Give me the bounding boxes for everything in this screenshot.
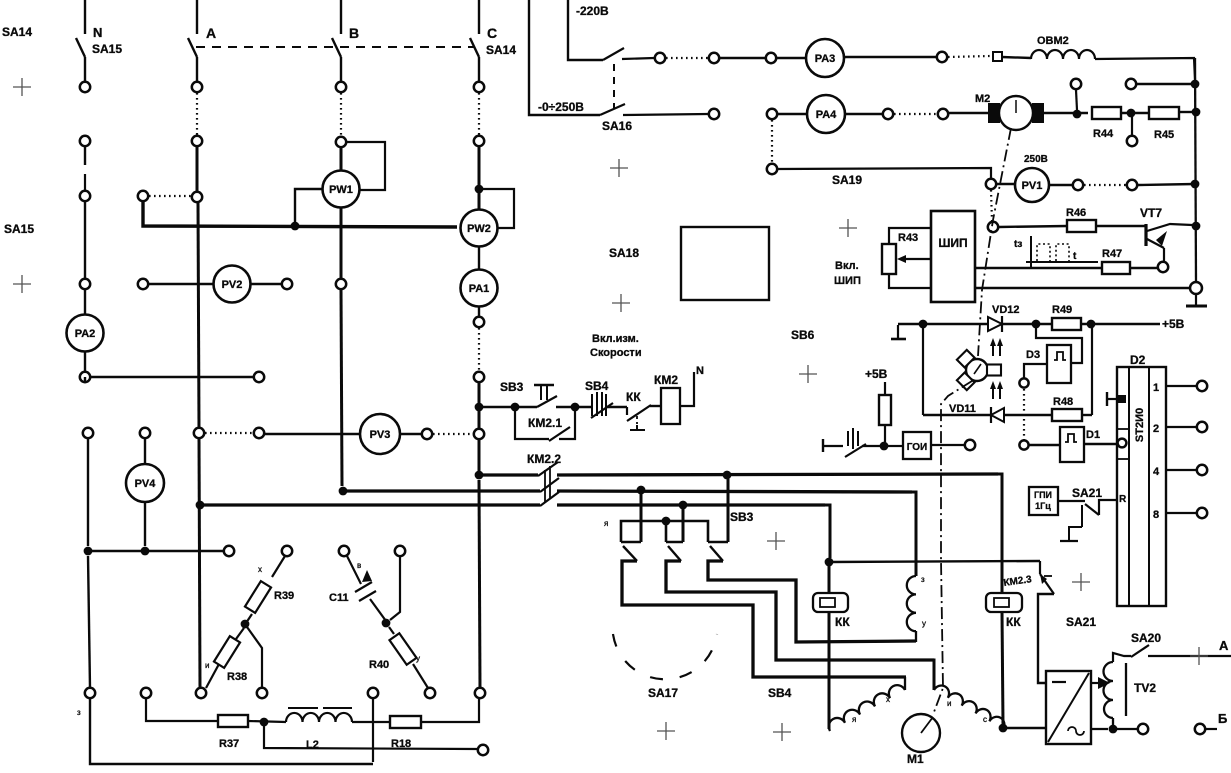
coil to N xyxy=(680,372,694,406)
wire A column (down to PV3 row) xyxy=(198,202,199,428)
node bar xyxy=(662,517,671,526)
terminal xyxy=(655,53,665,63)
wire N column xyxy=(84,201,86,279)
thermal element KK left xyxy=(828,566,831,593)
svg-text:SA21: SA21 xyxy=(1066,615,1096,629)
svg-text:+5В: +5В xyxy=(1162,317,1185,331)
tick pole2 xyxy=(666,541,683,544)
registration mark xyxy=(610,159,628,177)
svg-text:SA15: SA15 xyxy=(92,42,122,56)
svg-text:ОВМ2: ОВМ2 xyxy=(1037,35,1069,47)
terminal above PV4 xyxy=(140,428,150,438)
svg-text:R48: R48 xyxy=(1053,396,1073,408)
voltmeter PV3 xyxy=(264,433,360,435)
svg-text:SA19: SA19 xyxy=(832,173,862,187)
blade pole2 xyxy=(668,546,681,561)
PW1 voltage loop xyxy=(347,142,385,190)
wire SA19 row xyxy=(777,168,991,178)
light arrows upper xyxy=(993,344,1000,356)
svg-text:SA21: SA21 xyxy=(1072,486,1102,500)
registration mark xyxy=(839,219,857,237)
wire PA2 test row xyxy=(84,377,86,382)
terminal xyxy=(709,109,719,119)
ammeter PA1 xyxy=(478,246,480,270)
terminal xyxy=(766,53,776,63)
wire VD12 to R49 xyxy=(1002,323,1052,325)
phase switch SA14 pole B xyxy=(332,0,341,81)
motor M2 xyxy=(989,104,999,122)
PW2 voltage loop xyxy=(483,189,514,228)
resistor R47 xyxy=(1102,262,1130,274)
svg-text:з: з xyxy=(921,575,925,584)
terminal on N column xyxy=(80,279,90,289)
winding W3 (left, diagonal) xyxy=(826,682,905,731)
registration mark xyxy=(13,275,31,293)
wire to rail xyxy=(1138,184,1195,185)
arrow to TV2 tap xyxy=(1091,682,1103,684)
svg-text:з: з xyxy=(77,708,81,717)
svg-text:-0÷250В: -0÷250В xyxy=(538,100,584,114)
terminal below PA1 xyxy=(478,306,480,317)
terminal xyxy=(709,53,719,63)
comparator D3 xyxy=(1047,345,1071,383)
registration mark xyxy=(799,365,817,383)
svg-text:1: 1 xyxy=(1153,382,1159,394)
wire +5V xyxy=(1081,323,1160,325)
wire R48 right xyxy=(1082,414,1092,416)
svg-text:х: х xyxy=(258,565,262,574)
transistor VT7 xyxy=(1144,224,1147,246)
registration mark xyxy=(612,294,630,312)
svg-text:КК: КК xyxy=(1006,615,1021,629)
node on A column / bus3 xyxy=(196,501,205,510)
R43 wiper arrow xyxy=(904,258,931,260)
node xyxy=(571,403,580,412)
terminal xyxy=(1127,180,1137,190)
terminal right of PA2 row xyxy=(254,372,264,382)
dotted link PV3 to C column xyxy=(433,433,473,435)
svg-text:ШИП: ШИП xyxy=(834,275,861,287)
wire VD11 row xyxy=(923,414,991,416)
contact KM2.3 xyxy=(1039,561,1041,574)
svg-text:R40: R40 xyxy=(369,659,389,671)
wire OBM2 to right rail xyxy=(1095,58,1195,80)
node R44/R45 xyxy=(1121,112,1149,114)
node PW1 bus xyxy=(291,222,300,231)
terminal xyxy=(1195,724,1205,734)
wire from terminal 400 down xyxy=(390,556,400,620)
selector arc SA17 (dashed) xyxy=(613,634,717,679)
terminal bottom of C column xyxy=(475,688,485,698)
resistor R18 xyxy=(390,716,421,728)
terminal xyxy=(1138,724,1148,734)
wire to D1 xyxy=(1029,444,1060,446)
terminal on B column xyxy=(336,279,346,289)
svg-text:250В: 250В xyxy=(1024,154,1048,165)
bottom bus xyxy=(90,698,373,764)
terminal xyxy=(141,688,151,698)
node below PV4 xyxy=(141,547,150,556)
wire xyxy=(720,57,766,59)
terminal on A column at PV3 row xyxy=(194,428,204,438)
SA18 box xyxy=(681,227,769,300)
wire lower tap xyxy=(264,726,477,749)
tap terminal above xyxy=(1076,90,1077,110)
svg-text:D1: D1 xyxy=(1086,429,1100,441)
svg-text:я: я xyxy=(852,715,856,724)
step path pole3 xyxy=(708,561,916,642)
svg-text:КМ2.1: КМ2.1 xyxy=(528,416,562,430)
counter D2 box xyxy=(1117,367,1166,606)
terminal bottom of A column xyxy=(196,688,206,698)
wire left column xyxy=(87,438,89,546)
bus3 corner down xyxy=(822,505,830,558)
inductor OBM2 xyxy=(1031,50,1095,59)
node xyxy=(880,442,889,451)
D2 input pin circle xyxy=(1118,439,1127,448)
svg-text:TV2: TV2 xyxy=(1134,681,1156,695)
wire SB3 row xyxy=(483,406,537,408)
svg-text:SA17: SA17 xyxy=(648,686,678,700)
svg-text:VT7: VT7 xyxy=(1140,206,1162,220)
resistor R49 xyxy=(1052,318,1081,330)
node bus1/SB3bank xyxy=(723,471,732,480)
autotransformer TV2 xyxy=(1104,662,1114,718)
svg-text:C11: C11 xyxy=(329,592,349,604)
photodiode VD11 xyxy=(990,407,992,423)
svg-text:SA20: SA20 xyxy=(1131,631,1161,645)
svg-text:1Гц: 1Гц xyxy=(1035,501,1051,511)
terminal xyxy=(282,546,292,556)
wire C column to bottom xyxy=(479,480,480,688)
terminal on A column xyxy=(192,82,202,92)
TV2 bottom to output xyxy=(1112,718,1114,726)
terminal row y551 xyxy=(224,546,234,556)
bus2 corner to winding W2 xyxy=(908,492,916,576)
resistor R37 xyxy=(218,715,248,727)
terminal left of A column xyxy=(138,191,148,201)
svg-text:я: я xyxy=(604,519,608,528)
dotted link C column xyxy=(478,93,480,135)
wire to R46 xyxy=(999,226,1067,227)
phase switch SA14 pole C xyxy=(470,0,479,81)
svg-text:х: х xyxy=(886,695,890,704)
svg-text:N: N xyxy=(93,25,102,40)
svg-text:у: у xyxy=(922,619,926,628)
svg-text:КК: КК xyxy=(835,615,850,629)
svg-text:R39: R39 xyxy=(274,590,294,602)
svg-text:R38: R38 xyxy=(227,671,247,683)
common bar xyxy=(621,521,708,542)
node B bus2 xyxy=(339,487,348,496)
svg-text:A: A xyxy=(206,25,216,41)
switch SA21 xyxy=(1058,500,1085,502)
svg-text:PV3: PV3 xyxy=(370,429,391,441)
svg-text:SB6: SB6 xyxy=(791,328,815,342)
wire VD11 to R48 xyxy=(1004,414,1052,416)
riser R48 xyxy=(1091,328,1093,415)
svg-text:PA2: PA2 xyxy=(75,328,96,340)
terminal xyxy=(339,546,349,556)
wattmeter PW1 xyxy=(340,147,343,170)
wire xyxy=(556,406,591,408)
svg-text:Б: Б xyxy=(1218,711,1227,726)
svg-text:и: и xyxy=(947,699,951,708)
bus1 corner to KK right xyxy=(996,474,1002,592)
svg-text:КК: КК xyxy=(626,390,641,404)
node xyxy=(1087,320,1096,329)
wire xyxy=(650,405,661,407)
resistor R45 xyxy=(1149,107,1179,119)
terminal xyxy=(937,52,947,62)
terminal xyxy=(1019,440,1028,449)
terminal on C column PV3 row xyxy=(474,429,484,439)
light arrows lower xyxy=(993,387,1000,399)
svg-text:PW2: PW2 xyxy=(467,223,491,235)
node xyxy=(511,403,520,412)
terminal xyxy=(1073,180,1083,190)
dotted link to A column xyxy=(149,195,191,197)
svg-text:в: в xyxy=(357,561,361,570)
node bus3 drop xyxy=(679,501,688,510)
wire C column xyxy=(478,411,481,429)
right rail xyxy=(1195,58,1196,282)
winding W right (diagonal) xyxy=(929,660,934,690)
drop from bus1 xyxy=(727,479,730,542)
node C column bus1 xyxy=(475,471,484,480)
switch SA16 upper pole (-220V) xyxy=(568,0,603,60)
terminal emitter xyxy=(1158,262,1168,272)
terminal xyxy=(478,745,488,755)
drop from bus3 xyxy=(682,509,685,542)
voltmeter PV4 xyxy=(144,438,146,464)
wire to OBM2 xyxy=(1002,57,1031,58)
wire M2 to R44 xyxy=(1043,112,1088,114)
terminal on C column xyxy=(474,136,484,146)
svg-text:SA18: SA18 xyxy=(609,246,639,260)
terminal PV3 right xyxy=(422,429,432,439)
wire to KM2.3 xyxy=(829,561,1040,562)
pushbutton SB3 xyxy=(534,384,554,386)
step path pole2 xyxy=(666,561,934,660)
wire R45 to rail xyxy=(1179,111,1195,113)
svg-text:VD11: VD11 xyxy=(949,403,976,415)
wire SHIP out to R47 xyxy=(975,267,1102,269)
registration mark xyxy=(657,722,675,740)
terminal on C column xyxy=(474,82,484,92)
ammeter PA3 xyxy=(776,57,806,59)
wire D1 to D2 xyxy=(1084,443,1117,445)
square terminal xyxy=(993,52,1002,61)
svg-text:R: R xyxy=(1119,494,1127,505)
SA16 gang link dashed xyxy=(613,64,615,108)
wire xyxy=(606,406,627,408)
terminal on A column xyxy=(192,192,202,202)
inverter block xyxy=(1046,671,1091,744)
svg-text:Вкл.изм.: Вкл.изм. xyxy=(592,333,639,345)
svg-text:SA15: SA15 xyxy=(4,222,34,236)
wire down to measurement bus xyxy=(143,201,457,227)
wire C column xyxy=(478,439,481,471)
coupling dash-dot M2 to disc to M1 xyxy=(978,128,1011,356)
step glyph xyxy=(1081,505,1083,527)
capacitor C11 branch xyxy=(347,556,361,584)
svg-text:R49: R49 xyxy=(1052,304,1072,316)
wire R46 to VT7 base xyxy=(1096,225,1146,227)
terminal on A column xyxy=(192,136,202,146)
svg-text:R46: R46 xyxy=(1066,207,1086,219)
resistor R38 (rotated) xyxy=(236,628,244,639)
wire star point to inverter xyxy=(1007,727,1046,729)
registration mark xyxy=(1190,647,1208,665)
bus1 y475 xyxy=(483,473,538,476)
svg-text:M2: M2 xyxy=(975,93,990,105)
KM2.2 link bars xyxy=(544,470,546,502)
switch SA20 xyxy=(1113,653,1131,662)
branch to D3 xyxy=(1036,328,1082,363)
dotted link to R46 row xyxy=(991,190,992,221)
terminal bottom left column xyxy=(85,688,95,698)
svg-text:PA3: PA3 xyxy=(815,53,836,65)
svg-text:B: B xyxy=(349,25,359,41)
inductor L2 xyxy=(286,713,352,722)
wire R37 to L2 xyxy=(248,721,286,722)
svg-text:C: C xyxy=(487,25,497,41)
lead R39 to node xyxy=(246,614,252,623)
switch SA16 lower pole (-0..250V) xyxy=(529,0,600,115)
terminal on B column xyxy=(336,82,346,92)
svg-text:R47: R47 xyxy=(1102,248,1122,260)
voltmeter PV2 xyxy=(148,283,213,285)
svg-text:D3: D3 xyxy=(1026,349,1040,361)
gang link dashed A-B-C xyxy=(196,46,474,48)
terminal PV2 right xyxy=(282,279,292,289)
svg-text:Скорости: Скорости xyxy=(590,347,642,359)
wire from bus into GOI row xyxy=(879,445,884,447)
svg-text:SB4: SB4 xyxy=(768,686,792,700)
terminal xyxy=(767,164,777,174)
bus2 y491 xyxy=(342,489,540,492)
wire L2 to R18 xyxy=(352,721,390,723)
terminal above left column xyxy=(83,428,93,438)
pulse generator GPI 1Hz xyxy=(1029,487,1058,515)
svg-text:SA14: SA14 xyxy=(2,25,32,39)
PW1 left lead to bus xyxy=(295,189,322,222)
tick pole3 xyxy=(708,541,728,544)
svg-text:R45: R45 xyxy=(1154,129,1174,141)
registration mark xyxy=(13,78,31,96)
wattmeter PW2 xyxy=(478,189,481,210)
node left column xyxy=(84,547,93,556)
KM2.2 blade1 xyxy=(538,462,558,476)
node xyxy=(1073,110,1082,119)
node xyxy=(919,320,928,329)
terminal PV3 row xyxy=(254,428,264,438)
svg-text:SB3: SB3 xyxy=(500,380,524,394)
thermal contact KK xyxy=(626,407,628,415)
dotted link xyxy=(894,113,937,115)
terminal on B column xyxy=(336,137,346,147)
potentiometer R43 xyxy=(882,244,896,274)
node xyxy=(1032,320,1041,329)
terminal xyxy=(1019,378,1028,387)
node star point xyxy=(999,724,1008,733)
dotted link xyxy=(1023,389,1025,440)
node xyxy=(1109,725,1118,734)
wire N column xyxy=(84,146,86,165)
KM2.3 to inverter xyxy=(1038,594,1054,683)
svg-text:8: 8 xyxy=(1153,509,1159,521)
node above PW2 xyxy=(475,185,484,194)
blade pole3 xyxy=(710,546,723,561)
GOI output terminal xyxy=(931,444,965,446)
svg-text:у: у xyxy=(416,654,420,663)
terminal xyxy=(986,179,996,189)
tap terminal below xyxy=(1131,117,1133,136)
phase switch SA14 pole A xyxy=(188,0,197,81)
contactor coil KM2 xyxy=(661,388,680,424)
terminal xyxy=(938,109,948,119)
svg-text:ГПИ: ГПИ xyxy=(1034,490,1052,500)
terminal xyxy=(425,688,435,698)
pushbutton SB4 (NC) xyxy=(592,392,606,416)
resistor R48 xyxy=(1052,409,1082,421)
resistor R44 xyxy=(1092,107,1121,119)
node delta right xyxy=(382,619,391,628)
registration mark xyxy=(767,532,785,550)
ammeter PA2 xyxy=(84,289,86,315)
terminal on C column xyxy=(474,372,484,382)
svg-text:ШИП: ШИП xyxy=(938,236,967,250)
resistor R46 xyxy=(1067,220,1096,232)
wire to terminal xyxy=(1117,728,1137,730)
wire row y551 xyxy=(88,550,224,552)
svg-text:D2: D2 xyxy=(1130,353,1146,367)
step path pole1 xyxy=(622,561,906,677)
node delta left xyxy=(241,620,250,629)
terminal R46 row xyxy=(988,222,998,232)
dotted link xyxy=(666,57,709,59)
dotted link B column xyxy=(340,93,342,136)
registration mark xyxy=(1072,573,1090,591)
wire R18 to C column xyxy=(421,699,479,722)
dotted link SA19 column xyxy=(771,120,773,163)
wire to VD12 xyxy=(898,323,988,325)
terminal riser x373 xyxy=(368,688,378,698)
dotted link xyxy=(1084,184,1126,186)
winding W2 vertical xyxy=(907,576,916,631)
node xyxy=(260,718,269,727)
node xyxy=(825,558,834,567)
svg-text:2: 2 xyxy=(1153,423,1159,435)
photodiode VD12 xyxy=(988,317,1002,331)
pulse shaper GOI xyxy=(888,445,903,447)
wire A column xyxy=(196,146,199,192)
tap row y84 xyxy=(1137,83,1192,85)
svg-text:VD12: VD12 xyxy=(992,304,1020,316)
terminal on N column xyxy=(80,82,90,92)
svg-text:-220В: -220В xyxy=(576,4,609,18)
pulse diagram xyxy=(1030,236,1032,268)
svg-text:ST2И0: ST2И0 xyxy=(1134,408,1146,442)
svg-text:R44: R44 xyxy=(1093,128,1114,140)
svg-text:M1: M1 xyxy=(907,752,924,766)
wire C column xyxy=(478,146,481,185)
dotted link xyxy=(948,56,990,57)
tick pole1 xyxy=(621,541,641,544)
terminal xyxy=(883,109,893,119)
terminal xyxy=(257,688,267,698)
